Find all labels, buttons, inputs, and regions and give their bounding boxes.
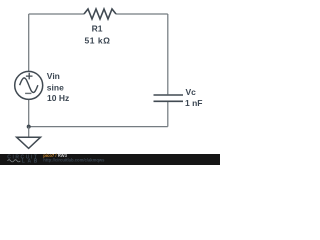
ground symbol (17, 137, 41, 148)
svg-text:10 Hz: 10 Hz (47, 93, 69, 103)
wire top-left horizontal (29, 13, 84, 15)
wire source to junction (28, 99, 30, 126)
svg-text:LAB: LAB (22, 159, 40, 165)
voltage source V1 plus sign (26, 73, 33, 80)
resistor R1 (84, 9, 116, 19)
svg-text:Vin: Vin (47, 71, 60, 81)
wire bottom horizontal (29, 126, 168, 128)
voltage source V1 minus sign (25, 92, 31, 94)
voltage source V1 sine symbol (20, 78, 38, 93)
watermark bar (0, 154, 220, 165)
svg-text:http://circuitlab.com/c/akmqws: http://circuitlab.com/c/akmqws (43, 157, 105, 162)
svg-text:R1: R1 (92, 24, 103, 34)
svg-text:Vc: Vc (186, 87, 197, 97)
svg-text:1 nF: 1 nF (185, 98, 202, 108)
svg-text:51 kΩ: 51 kΩ (84, 35, 110, 45)
svg-text:sine: sine (47, 82, 64, 92)
wire left vertical (28, 14, 30, 72)
wire right vertical lower (167, 102, 169, 127)
capacitor C1 bottom plate (154, 100, 184, 102)
wire right vertical upper (167, 14, 169, 94)
voltage source V1 body (15, 71, 43, 99)
junction node dot (27, 125, 31, 129)
watermark logo wave (8, 160, 21, 162)
capacitor C1 top plate (154, 94, 184, 96)
ground stem wire (28, 127, 30, 138)
wire top-right horizontal (116, 13, 168, 15)
